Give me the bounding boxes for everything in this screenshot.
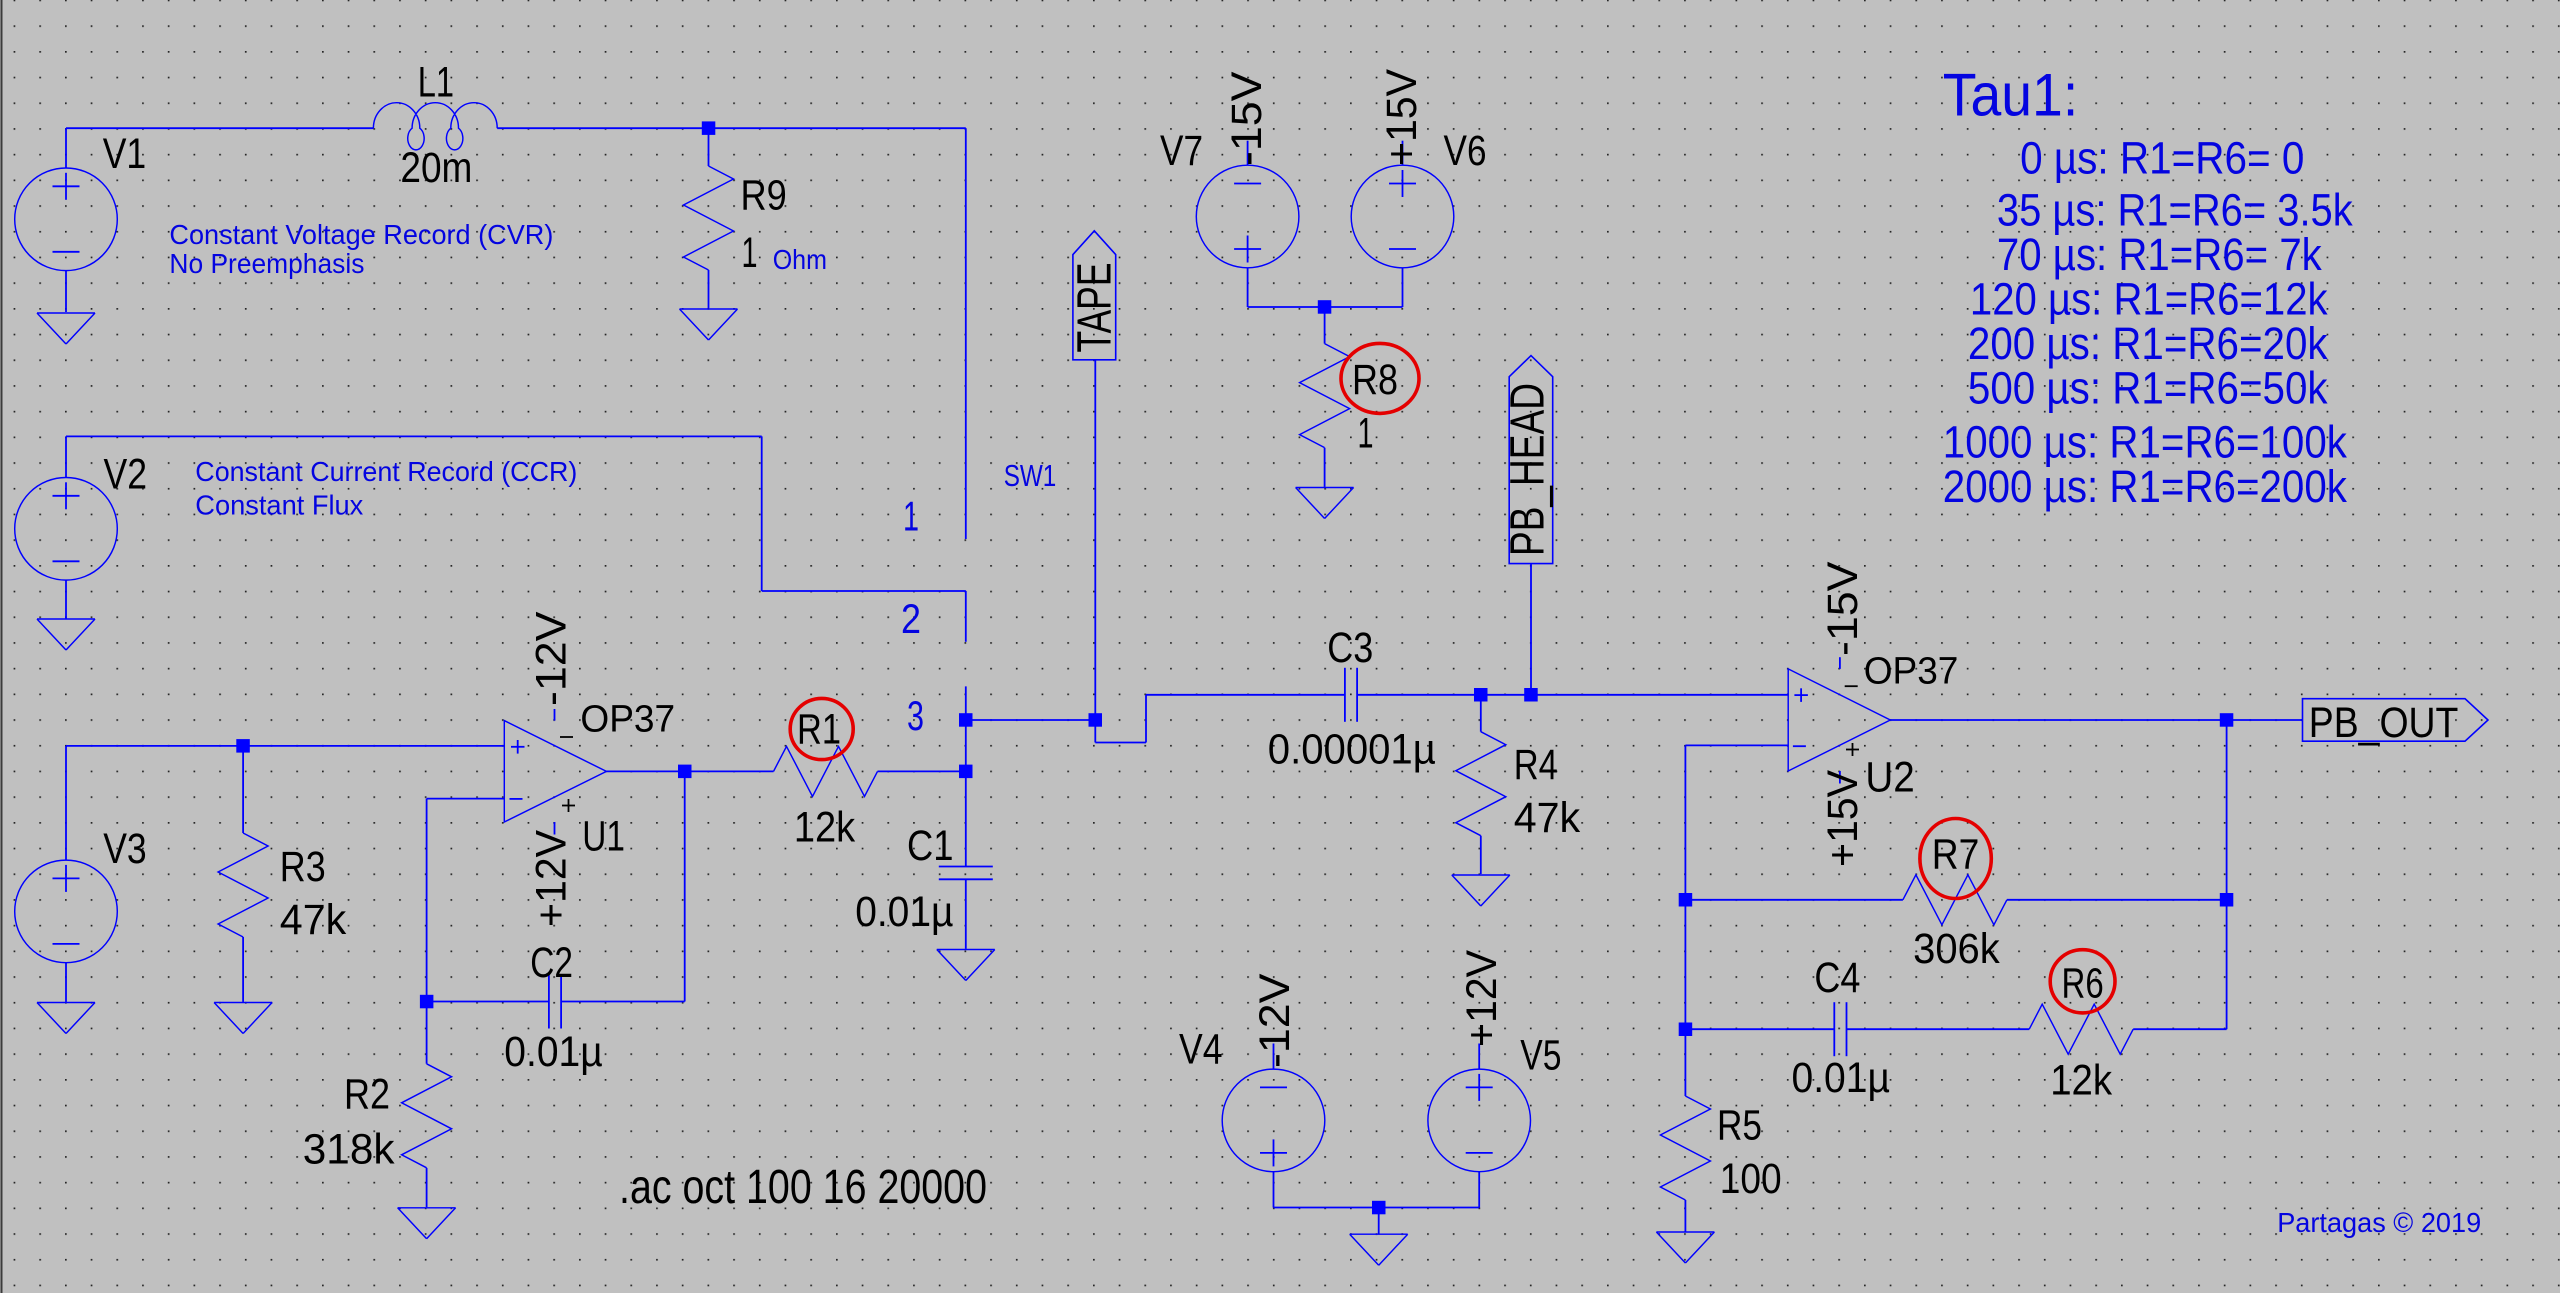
junction PB_HEAD node (1524, 688, 1538, 702)
label R9 (741, 173, 787, 220)
label R5 (1717, 1103, 1762, 1150)
wire TAPE elbow bottom (1095, 742, 1146, 744)
wire V2 bottom stub (65, 580, 67, 618)
junction C2 R2 node (420, 995, 434, 1009)
wire R4 top lead (1480, 695, 1482, 732)
wire V3 bottom stub (65, 963, 67, 1002)
label R7 (1932, 832, 1980, 879)
svg-text:U2: U2 (1865, 754, 1914, 801)
svg-text:PB_OUT: PB_OUT (2309, 700, 2459, 747)
label L1 (418, 59, 454, 106)
svg-text:318k: 318k (303, 1126, 395, 1173)
value 47k R3 (280, 897, 347, 944)
voltage source V3 (15, 860, 118, 963)
comment No Preemphasis (169, 248, 364, 279)
wire U2 feedback vertical (1684, 745, 1686, 1029)
wire R1 right (878, 770, 966, 772)
svg-text:-15V: -15V (1224, 71, 1271, 166)
flag PB_HEAD (1502, 356, 1555, 564)
svg-text:0.00001µ: 0.00001µ (1268, 727, 1436, 774)
wire C1 bottom lead (965, 879, 967, 949)
value 0.00001u (1268, 727, 1436, 774)
ground below R9 (680, 309, 738, 340)
value 20m (400, 145, 472, 192)
label V2 (104, 451, 148, 498)
resistor R4 (1456, 732, 1506, 836)
value +12V V5 (1459, 949, 1506, 1047)
label U1 (582, 814, 625, 861)
resistor R7 (1903, 875, 2007, 925)
svg-text:OP37: OP37 (580, 699, 675, 741)
junction pin3 TAPE row (959, 713, 973, 727)
comment Constant Voltage Record (169, 219, 553, 250)
label C3 (1327, 625, 1373, 672)
svg-text:Tau1:: Tau1: (1943, 61, 2078, 128)
resistor R6 (2029, 1004, 2133, 1054)
svg-text:R4: R4 (1514, 742, 1558, 789)
voltage source V5 (1428, 1069, 1531, 1172)
wire V7 to V6 bottom (1248, 306, 1403, 308)
svg-text:1: 1 (742, 230, 758, 277)
value -12V V4 (1252, 973, 1299, 1068)
wire V6 top pin (1402, 141, 1404, 166)
svg-text:200 µs: R1=R6=20k: 200 µs: R1=R6=20k (1968, 318, 2328, 369)
voltage source V2 (15, 478, 118, 581)
value 1 Ohm (742, 230, 828, 277)
ground below R2 (398, 1208, 456, 1239)
wire V5 bottom stub (1478, 1172, 1480, 1208)
wire TAPE vertical (1094, 360, 1096, 743)
node number 3 (907, 692, 924, 739)
wire V3 top stub (65, 746, 67, 860)
svg-text:C2: C2 (530, 940, 573, 987)
ground below V4 V5 (1350, 1234, 1408, 1265)
wire V5 to junction (1379, 1207, 1480, 1209)
svg-text:Constant Current Record (CCR): Constant Current Record (CCR) (195, 456, 577, 487)
svg-text:+12V: +12V (529, 829, 576, 927)
svg-text:V4: V4 (1179, 1027, 1223, 1074)
wire ground stem V4V5 (1378, 1208, 1380, 1234)
voltage source V4 (1222, 1069, 1325, 1172)
label R6 (2062, 961, 2104, 1008)
comment tau row 8 (1943, 461, 2348, 512)
label V4 (1179, 1027, 1223, 1074)
wire R7 left (1685, 899, 1903, 901)
wire TAPE elbow up (1145, 695, 1147, 743)
wire U2 output (1890, 719, 2226, 721)
svg-text:C3: C3 (1327, 625, 1373, 672)
inductor L1 (373, 103, 497, 150)
capacitor C2 (549, 975, 561, 1029)
svg-text:V5: V5 (1520, 1033, 1561, 1080)
svg-text:TAPE: TAPE (1069, 263, 1122, 353)
comment tau row 3 (1997, 229, 2322, 280)
wire R5 top lead (1684, 1029, 1686, 1096)
capacitor C3 (1345, 668, 1357, 722)
svg-text:V3: V3 (103, 826, 147, 873)
wire top rail right of L1 (497, 127, 966, 129)
wire C4 right (1847, 1028, 2030, 1030)
wire to PB_OUT flag (2227, 719, 2303, 721)
svg-text:R3: R3 (280, 844, 326, 891)
ground below R5 (1656, 1232, 1714, 1263)
wire switch pin 1 vertical (965, 128, 967, 539)
wire U1 output (606, 770, 773, 772)
wire R5 bottom lead (1684, 1200, 1686, 1232)
svg-text:Ohm: Ohm (773, 244, 827, 275)
wire C2 right (561, 1001, 685, 1003)
value 0.01u C1 (855, 889, 953, 936)
wire V4 top pin (1273, 1044, 1275, 1069)
spice directive .ac (619, 1161, 987, 1214)
wire C1 top lead (965, 771, 967, 866)
red circle around R8 (1341, 343, 1419, 413)
label U2 (1865, 754, 1914, 801)
svg-text:R6: R6 (2062, 961, 2104, 1008)
value +15V V6 (1379, 68, 1426, 166)
comment tau row 7 (1943, 417, 2348, 468)
wire V4 bottom stub (1273, 1172, 1275, 1208)
value 318k (303, 1126, 395, 1173)
label V3 (103, 826, 147, 873)
svg-text:R1: R1 (797, 707, 841, 754)
svg-text:20m: 20m (400, 145, 472, 192)
comment tau row 5 (1968, 318, 2328, 369)
svg-text:0.01µ: 0.01µ (855, 889, 953, 936)
wire V4 to junction (1274, 1207, 1379, 1209)
junction TAPE wire (1089, 713, 1103, 727)
ground below C1 (937, 950, 995, 981)
svg-text:2000 µs: R1=R6=200k: 2000 µs: R1=R6=200k (1943, 461, 2348, 512)
label OP37 U1 (580, 699, 675, 741)
wire output bus vertical (2226, 720, 2228, 1029)
svg-text:C1: C1 (907, 823, 954, 870)
svg-text:+15V: +15V (1379, 68, 1426, 166)
voltage source V6 (1351, 165, 1454, 268)
label C1 (907, 823, 954, 870)
svg-text:35 µs: R1=R6= 3.5k: 35 µs: R1=R6= 3.5k (1997, 185, 2353, 236)
value 1 R8 (1358, 411, 1374, 458)
capacitor C1 (939, 867, 993, 880)
svg-text:1: 1 (903, 492, 919, 539)
junction R7 right bus (2220, 893, 2234, 907)
red circle around R7 (1920, 819, 1991, 899)
svg-text:3: 3 (907, 692, 924, 739)
wire V6 bottom stub (1402, 268, 1404, 307)
label OP37 U2 (1864, 651, 1959, 693)
svg-text:R9: R9 (741, 173, 787, 220)
wire C2 to output (684, 771, 686, 1001)
wire R3 bottom lead (242, 937, 244, 1002)
junction R1 C1 node (959, 765, 973, 779)
label R2 (344, 1071, 390, 1118)
wire V7 top pin (1247, 141, 1249, 166)
value -12V U1 (529, 611, 576, 706)
junction R7 left (1679, 893, 1693, 907)
wire R8 top lead (1324, 307, 1326, 344)
svg-text:R5: R5 (1717, 1103, 1762, 1150)
value 12k R1 (794, 804, 856, 851)
capacitor C4 (1834, 1002, 1846, 1056)
value 0.01u C2 (504, 1029, 602, 1076)
svg-text:R8: R8 (1352, 357, 1398, 404)
ground below R8 (1296, 488, 1354, 519)
svg-text:-12V: -12V (1252, 973, 1299, 1068)
resistor R8 (1300, 344, 1350, 448)
svg-text:100: 100 (1720, 1156, 1782, 1203)
wire V7 bottom stub (1247, 268, 1249, 307)
svg-text:PB_HEAD: PB_HEAD (1502, 383, 1555, 556)
wire R9 top lead (708, 128, 710, 166)
ground below V3 (37, 1003, 95, 1034)
window left border (1, 0, 3, 1293)
label V1 (103, 131, 147, 178)
junction C4 R5 node (1679, 1023, 1693, 1037)
resistor R2 (402, 1064, 452, 1168)
value 100 (1720, 1156, 1782, 1203)
svg-text:-15V: -15V (1820, 561, 1867, 656)
svg-text:306k: 306k (1913, 926, 2000, 973)
flag PB_OUT (2303, 699, 2489, 747)
wire R7 right (2007, 899, 2227, 901)
comment tau row 2 (1997, 185, 2353, 236)
svg-text:+12V: +12V (1459, 949, 1506, 1047)
svg-text:0.01µ: 0.01µ (504, 1029, 602, 1076)
svg-text:V2: V2 (104, 451, 148, 498)
voltage source V1 (15, 168, 118, 271)
svg-text:2: 2 (901, 595, 921, 642)
resistor R3 (218, 833, 268, 937)
wire V5 top pin (1478, 1044, 1480, 1069)
svg-text:R2: R2 (344, 1071, 390, 1118)
svg-text:V7: V7 (1160, 128, 1203, 175)
wire pin3 to TAPE net (966, 719, 1096, 721)
svg-text:500 µs: R1=R6=50k: 500 µs: R1=R6=50k (1968, 363, 2328, 414)
label R4 (1514, 742, 1558, 789)
comment tau row 1 (2020, 132, 2304, 183)
label C4 (1814, 955, 1860, 1002)
svg-text:1000 µs: R1=R6=100k: 1000 µs: R1=R6=100k (1943, 417, 2348, 468)
label SW1 (1004, 458, 1057, 493)
svg-text:Constant Voltage Record (CVR): Constant Voltage Record (CVR) (169, 219, 553, 250)
svg-text:No Preemphasis: No Preemphasis (169, 248, 364, 279)
wire R8 bottom lead (1324, 448, 1326, 487)
resistor R9 (684, 166, 734, 270)
wire U1 feedback vertical (426, 799, 428, 1064)
ground below R4 (1452, 875, 1510, 906)
flag TAPE (1069, 231, 1122, 360)
node number 2 (901, 595, 921, 642)
wire U2 -input (1685, 744, 1788, 746)
op-amp U1 (504, 709, 606, 835)
svg-text:47k: 47k (1514, 795, 1581, 842)
op-amp U2 (1788, 657, 1890, 783)
wire V3 R3 to U1 +input (66, 745, 504, 747)
svg-text:47k: 47k (280, 897, 347, 944)
wire top rail left of L1 (66, 127, 373, 129)
ground below V1 (37, 313, 95, 344)
comment tau row 4 (1970, 274, 2328, 325)
comment tau row 6 (1968, 363, 2328, 414)
label V6 (1444, 128, 1487, 175)
comment Constant Current Record (195, 456, 577, 487)
wire switch pin 2 stub (965, 591, 967, 642)
value 0.01u C4 (1792, 1055, 1891, 1102)
junction R4 node (1474, 688, 1488, 702)
svg-text:R7: R7 (1932, 832, 1980, 879)
wire C3 to U2 +input (1357, 694, 1788, 696)
svg-text:L1: L1 (418, 59, 454, 106)
junction U2 output (2220, 713, 2234, 727)
wire R4 bottom lead (1480, 836, 1482, 874)
svg-text:SW1: SW1 (1004, 458, 1057, 493)
svg-text:0 µs: R1=R6= 0: 0 µs: R1=R6= 0 (2020, 132, 2304, 183)
junction node R9 top (702, 121, 716, 134)
label C2 (530, 940, 573, 987)
svg-text:1: 1 (1358, 411, 1374, 458)
ground below V2 (37, 619, 95, 650)
wire V1 top stub (65, 128, 67, 168)
wire U1 -input (427, 798, 505, 800)
label R1 (797, 707, 841, 754)
value 12k R6 (2050, 1058, 2113, 1105)
svg-text:-12V: -12V (529, 611, 576, 706)
wire switch pin 3 vertical (965, 686, 967, 771)
node number 1 (903, 492, 919, 539)
wire V2 top stub (65, 436, 67, 477)
svg-text:V6: V6 (1444, 128, 1487, 175)
wire R3 top lead (242, 746, 244, 833)
value +12V U1 (529, 829, 576, 927)
svg-text:12k: 12k (2050, 1058, 2113, 1105)
wire PB_HEAD pole (1530, 564, 1532, 695)
value +15V U2 (1820, 769, 1867, 867)
red circle around R6 (2050, 950, 2115, 1013)
comment Constant Flux (195, 490, 363, 521)
wire R6 right (2133, 1028, 2226, 1030)
junction U1 output (678, 765, 692, 779)
svg-text:Partagas © 2019: Partagas © 2019 (2277, 1207, 2481, 1238)
svg-text:12k: 12k (794, 804, 856, 851)
junction R8 top (1318, 300, 1332, 314)
wire V2 net to pin 2 (762, 590, 966, 592)
value -15V U2 (1820, 561, 1867, 656)
wire V2 net step down (761, 436, 763, 591)
value 306k (1913, 926, 2000, 973)
svg-text:OP37: OP37 (1864, 651, 1959, 693)
wire V2 to switch horizontal (66, 435, 762, 437)
red circle around R1 (790, 698, 853, 759)
wire to C3 left (1146, 694, 1345, 696)
svg-text:70 µs: R1=R6= 7k: 70 µs: R1=R6= 7k (1997, 229, 2322, 280)
voltage source V7 (1196, 165, 1299, 268)
junction V4 V5 ground node (1372, 1201, 1386, 1215)
label R8 (1352, 357, 1398, 404)
label V5 (1520, 1033, 1561, 1080)
label R3 (280, 844, 326, 891)
value 47k R4 (1514, 795, 1581, 842)
wire V1 bottom stub (65, 271, 67, 312)
svg-text:+15V: +15V (1820, 769, 1867, 867)
ground below R3 (214, 1003, 272, 1034)
resistor R5 (1660, 1096, 1710, 1200)
wire C4 left (1685, 1028, 1834, 1030)
value -15V V7 (1224, 71, 1271, 166)
svg-text:120 µs: R1=R6=12k: 120 µs: R1=R6=12k (1970, 274, 2328, 325)
resistor R1 (774, 746, 878, 796)
wire R9 bottom lead (708, 270, 710, 308)
svg-text:0.01µ: 0.01µ (1792, 1055, 1891, 1102)
svg-text:.ac oct 100 16 20000: .ac oct 100 16 20000 (619, 1161, 987, 1214)
svg-text:U1: U1 (582, 814, 625, 861)
svg-text:V1: V1 (103, 131, 147, 178)
wire R2 bottom lead (426, 1168, 428, 1207)
comment Partagas copyright (2277, 1207, 2481, 1238)
label V7 (1160, 128, 1203, 175)
svg-text:Constant Flux: Constant Flux (195, 490, 363, 521)
junction R3 top (236, 739, 250, 753)
wire C2 left (427, 1001, 549, 1003)
svg-text:C4: C4 (1814, 955, 1860, 1002)
comment Tau1 title (1943, 61, 2078, 128)
